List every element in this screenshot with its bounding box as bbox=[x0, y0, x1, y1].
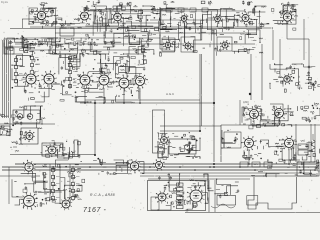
svg-text:SPK: SPK bbox=[240, 33, 245, 36]
svg-text:7167 -: 7167 - bbox=[83, 207, 107, 214]
svg-text:Fig 2a: Fig 2a bbox=[1, 1, 8, 4]
svg-text:R.C.A - AR88: R.C.A - AR88 bbox=[90, 193, 115, 197]
svg-text:A.G.C: A.G.C bbox=[166, 92, 175, 96]
